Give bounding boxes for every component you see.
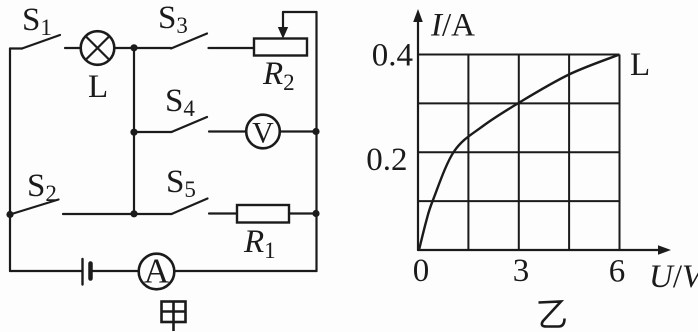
rheostat R2 [254, 12, 317, 56]
svg-text:L: L [88, 69, 108, 105]
node S2 left junction [6, 211, 13, 218]
y axis arrow [413, 9, 423, 22]
battery [83, 259, 139, 285]
label yi (乙) [539, 302, 565, 327]
node R1 right junction [312, 210, 319, 217]
svg-text:V: V [252, 117, 274, 150]
graph axes [418, 22, 662, 250]
svg-text:U/V: U/V [649, 259, 698, 295]
wire R1 to right bus [289, 212, 317, 214]
ammeter A [139, 254, 175, 290]
svg-text:3: 3 [513, 253, 530, 289]
voltmeter V [246, 115, 280, 149]
grid [418, 55, 620, 251]
wire right bus [315, 12, 317, 271]
svg-text:L: L [630, 47, 650, 83]
switch S1 [10, 35, 81, 49]
svg-text:0.4: 0.4 [372, 38, 413, 74]
wire lamp to S3 [114, 47, 171, 49]
switch S5 [134, 199, 237, 215]
node S4 junction [130, 129, 137, 136]
svg-text:0: 0 [413, 253, 430, 289]
switch S4 [134, 117, 246, 132]
node V right junction [312, 128, 319, 135]
wire A to right bus [174, 270, 316, 272]
lamp L [81, 31, 115, 65]
switch S3 [171, 34, 254, 49]
x axis [418, 249, 662, 251]
wire V to right bus [280, 130, 317, 132]
curve I-U [419, 55, 620, 251]
y axis [417, 22, 419, 250]
node S2-S5 junction [130, 210, 137, 217]
node lamp-S3 junction [130, 44, 137, 51]
wire left bus [9, 49, 11, 272]
svg-text:6: 6 [609, 254, 626, 290]
label jia (甲) [162, 302, 186, 332]
wire middle bus [133, 48, 135, 214]
wire bottom [10, 270, 83, 272]
resistor R1 [237, 205, 289, 223]
x axis arrow [658, 245, 671, 255]
svg-text:0.2: 0.2 [366, 142, 407, 178]
switch S2 [10, 200, 134, 215]
svg-text:A: A [144, 252, 170, 291]
svg-text:I/A: I/A [430, 8, 475, 44]
